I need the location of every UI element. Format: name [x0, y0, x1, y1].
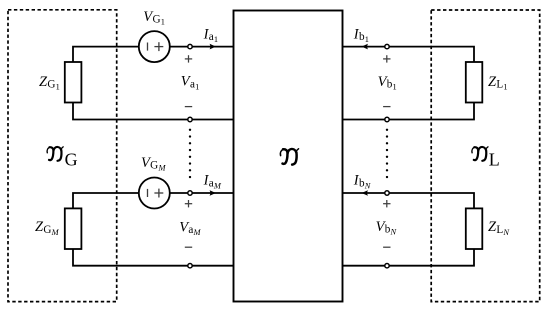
node b1 top terminal: [385, 44, 389, 48]
node aM top terminal: [188, 191, 192, 195]
multiport network box N: [234, 11, 343, 302]
svg-text:G: G: [65, 150, 78, 170]
network label NL (fraktur): [472, 147, 500, 170]
polarity + port b1: [383, 55, 390, 62]
wire: port aM bottom rail: [73, 249, 234, 266]
polarity - port a1: [185, 106, 192, 108]
impedance Z_G1: [65, 62, 82, 103]
voltage source V_G1: [139, 31, 170, 62]
load network dashed box NL: [431, 10, 540, 302]
current arrow I_b1: [362, 44, 368, 50]
voltage source V_GM: [139, 178, 170, 209]
wire: port bN bottom rail: [343, 249, 475, 266]
impedance Z_LN: [466, 208, 483, 249]
wire: source V_G1 to node a1: [170, 46, 234, 48]
wire: port a1 bottom rail: [73, 103, 234, 120]
polarity - port aM: [185, 246, 192, 248]
current arrow I_aM: [210, 190, 216, 196]
node bN top terminal: [385, 191, 389, 195]
node a1 bottom terminal: [188, 117, 192, 121]
network label NG (fraktur): [47, 147, 77, 170]
wire: port a1 top rail: [73, 47, 139, 62]
node aM bottom terminal: [188, 264, 192, 268]
polarity - port bN: [383, 246, 390, 248]
generator network dashed box NG: [8, 10, 117, 302]
node a1 top terminal: [188, 44, 192, 48]
wire: port aM top rail: [73, 193, 139, 208]
polarity + port bN: [383, 200, 390, 207]
wire: source V_GM to node aM: [170, 192, 234, 194]
current arrow I_bN: [362, 190, 368, 196]
node b1 bottom terminal: [385, 117, 389, 121]
current arrow I_a1: [210, 44, 216, 50]
wire: port b1 bottom rail: [343, 103, 475, 120]
polarity + port aM: [185, 200, 192, 207]
impedance Z_L1: [466, 62, 483, 103]
impedance Z_GM: [65, 208, 82, 249]
ellipsis dots left: [189, 129, 191, 179]
network label N (fraktur) center: [280, 149, 298, 165]
node bN bottom terminal: [385, 264, 389, 268]
wire: port bN top rail: [343, 193, 475, 208]
polarity + port a1: [185, 55, 192, 62]
polarity - port b1: [383, 106, 390, 108]
svg-text:L: L: [489, 150, 500, 170]
ellipsis dots right: [386, 129, 388, 179]
wire: port b1 top rail: [343, 47, 475, 62]
